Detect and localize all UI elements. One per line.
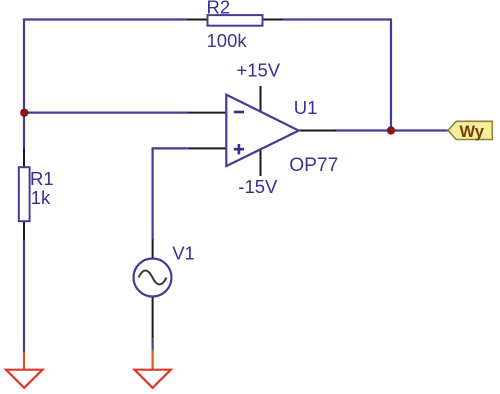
op-amp U1 pin non-inverting input <box>189 147 226 149</box>
op-amp U1 pin V+ power <box>260 86 262 112</box>
svg-text:R2: R2 <box>207 0 231 17</box>
source V1 pin top <box>152 240 154 260</box>
svg-text:100k: 100k <box>207 30 248 51</box>
svg-text:U1: U1 <box>294 97 318 118</box>
ground symbol left <box>6 370 43 388</box>
wire R1 bottom to ground <box>23 239 25 353</box>
op-amp U1 pin output <box>298 130 336 132</box>
source V1 sine symbol <box>139 271 167 285</box>
wire junction to R1 top <box>23 113 25 150</box>
op-amp U1 minus input symbol <box>234 111 244 114</box>
svg-text:Wy: Wy <box>460 123 485 141</box>
wire top feedback left segment <box>23 18 189 20</box>
wire right vertical down to output node <box>390 19 392 131</box>
resistor R2 body <box>208 15 263 26</box>
resistor R1 pin top <box>23 149 25 168</box>
ground stem left <box>23 352 25 370</box>
svg-text:-15V: -15V <box>238 176 278 197</box>
op-amp U1 pin inverting input <box>189 112 227 114</box>
ground symbol under V1 <box>135 370 171 388</box>
wire non-inverting input vertical to V1 <box>152 147 154 240</box>
resistor R1 body <box>19 167 30 221</box>
node junction dot at inverting input <box>21 109 28 116</box>
resistor R1 pin bottom <box>23 221 25 240</box>
svg-text:R1: R1 <box>30 168 54 189</box>
wire inverting input <box>24 111 189 113</box>
svg-text:V1: V1 <box>172 242 195 263</box>
svg-text:OP77: OP77 <box>289 155 338 176</box>
svg-text:+15V: +15V <box>236 59 280 80</box>
op-amp U1 pin V- power <box>260 149 262 176</box>
node junction dot at output <box>387 127 394 134</box>
wire non-inverting input horizontal <box>153 147 190 149</box>
op-amp U1 triangle body <box>226 95 298 167</box>
source V1 circle body <box>134 259 172 297</box>
wire op-amp output to Wy flag <box>335 129 449 131</box>
output flag Wy <box>448 121 492 139</box>
op-amp U1 plus input symbol <box>234 148 244 151</box>
ground stem under V1 <box>152 350 154 370</box>
svg-text:1k: 1k <box>31 187 51 208</box>
wire left vertical from top corner to junction <box>23 19 25 114</box>
wire top feedback right segment <box>282 18 393 20</box>
wire V1 bottom to ground <box>152 337 154 351</box>
resistor R2 pin left <box>188 19 209 21</box>
source V1 pin bottom <box>152 296 154 338</box>
resistor R2 pin right <box>262 19 283 21</box>
